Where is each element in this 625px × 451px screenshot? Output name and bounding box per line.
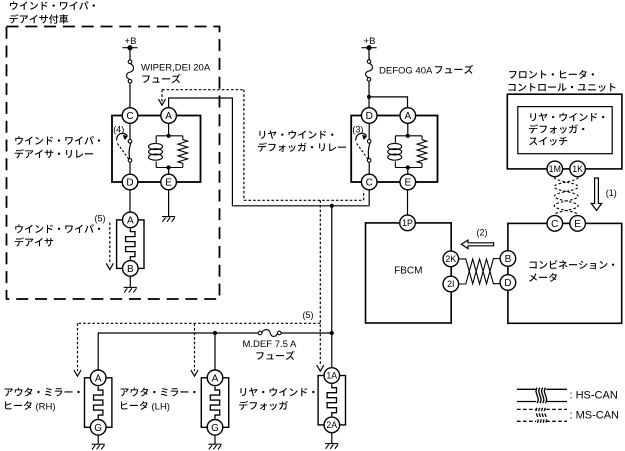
wiper deicer relay label	[15, 136, 100, 145]
svg-text:1M: 1M	[549, 164, 561, 174]
terminal B (meter)	[500, 251, 516, 267]
wire defog relay C down	[368, 190, 370, 206]
heating element (resistive)	[327, 384, 336, 416]
svg-text:(RH): (RH)	[36, 401, 56, 412]
component case	[201, 378, 228, 428]
terminal C	[122, 108, 138, 124]
terminal B	[123, 261, 139, 277]
node: coil top junction	[406, 134, 410, 138]
dashed wire (5): branch down to heaters	[319, 200, 321, 366]
legend: MS-CAN symbol	[517, 408, 567, 423]
component case	[117, 220, 144, 269]
wire fuse to node	[368, 81, 370, 97]
wire relay D to deicer A	[129, 190, 131, 212]
terminal A	[207, 370, 223, 386]
relay: window wiper deicer relay (terminals C,A,D,E)	[112, 108, 201, 190]
node: coil top junction	[167, 134, 171, 138]
node: heater feed / defogger junction	[330, 331, 334, 335]
node: LH heater branch	[213, 331, 217, 335]
ground (rear window defogger)	[325, 444, 338, 449]
ground (LH mirror heater)	[208, 444, 221, 449]
rear window defogger switch box	[518, 107, 612, 154]
svg-text:E: E	[404, 178, 411, 189]
svg-text:A: A	[404, 111, 411, 122]
front heater control unit box	[507, 94, 622, 169]
relay switch contact	[117, 123, 132, 174]
svg-text:DEFOG 40A: DEFOG 40A	[379, 65, 433, 76]
svg-text:FBCM: FBCM	[394, 265, 422, 276]
terminal 2K	[443, 251, 459, 267]
svg-text:1A: 1A	[326, 371, 337, 381]
node: coil bottom junction	[406, 165, 410, 169]
label WIPER,DEI 20A fuse	[141, 63, 211, 84]
terminal A	[161, 108, 177, 124]
wire terminal to coil	[407, 123, 409, 136]
heater element: outer mirror heater LH (terminals A,G)	[201, 370, 228, 435]
outer mirror heater RH label	[5, 388, 80, 397]
relay case	[112, 116, 201, 183]
heater element: rear window defogger (terminals 1A,2A)	[318, 368, 345, 433]
relay case	[351, 116, 437, 183]
switch actuation arrow (3)	[352, 125, 367, 141]
svg-text:G: G	[211, 423, 219, 434]
heating element (resistive)	[210, 387, 219, 419]
terminal C (meter)	[547, 216, 563, 232]
svg-text:B: B	[505, 254, 512, 265]
svg-text:2A: 2A	[326, 420, 337, 430]
svg-text:(5): (5)	[303, 310, 314, 320]
terminal 1P	[400, 215, 416, 231]
wiper deicer component label	[15, 224, 100, 233]
svg-text:: MS-CAN: : MS-CAN	[570, 410, 620, 422]
terminal 1M	[547, 161, 563, 177]
svg-text:D: D	[504, 278, 511, 289]
terminal 2A	[324, 417, 340, 433]
svg-text:A: A	[212, 373, 219, 384]
wire to LH heater A	[214, 333, 216, 370]
svg-text:M.DEF 7.5 A: M.DEF 7.5 A	[243, 339, 298, 350]
terminal D	[122, 174, 138, 190]
component case	[85, 378, 112, 428]
terminal D (meter)	[500, 275, 516, 291]
ground (RH mirror heater)	[92, 444, 105, 449]
svg-text:(2): (2)	[477, 228, 488, 238]
terminal C	[361, 174, 377, 190]
node: feed junction	[330, 204, 334, 208]
heating element (resistive)	[126, 229, 135, 260]
svg-text:1P: 1P	[402, 218, 413, 228]
wire node to relay D	[368, 97, 370, 108]
svg-text:1K: 1K	[572, 164, 583, 174]
terminal A	[90, 370, 106, 386]
wire terminal to coil	[168, 123, 170, 136]
terminal E (meter)	[570, 216, 586, 232]
svg-text:2K: 2K	[445, 254, 456, 264]
rear window defogger relay label	[259, 130, 333, 139]
svg-text:: HS-CAN: : HS-CAN	[570, 389, 618, 401]
label M.DEF 7.5 A fuse	[243, 339, 298, 360]
terminal E	[400, 174, 416, 190]
svg-text:C: C	[366, 178, 373, 189]
wire defog relay E to FBCM 1P	[407, 190, 409, 215]
heating element (resistive)	[93, 387, 102, 419]
heater element: window wiper deicer (terminals A,B)	[117, 212, 144, 276]
terminal 2I	[443, 276, 459, 292]
node: defog fuse output	[367, 95, 371, 99]
FBCM module box	[366, 223, 452, 323]
wire coil to terminal	[407, 168, 409, 175]
terminal G	[207, 420, 223, 436]
note: cars with window wiper deicer (header)	[10, 1, 95, 10]
svg-text:E: E	[165, 178, 172, 189]
svg-text:A: A	[127, 215, 134, 226]
wire +B to fuse	[129, 48, 131, 60]
dashed wire (5) arrow at wiper deicer	[109, 223, 111, 265]
svg-text:G: G	[94, 423, 102, 434]
svg-text:2I: 2I	[447, 279, 454, 289]
power +B (defog)	[361, 36, 376, 50]
svg-text:(LH): (LH)	[152, 401, 170, 412]
wire junction down to heater feed node	[331, 206, 333, 333]
HS-CAN twisted pair 2K/2I to B/D	[459, 259, 501, 285]
terminal A	[123, 212, 139, 228]
relay resistor	[178, 140, 188, 164]
wire heater feed line	[98, 333, 332, 370]
fuse M.DEF 7.5A	[258, 330, 281, 337]
hollow arrow (2)	[461, 240, 493, 249]
terminal G	[90, 420, 106, 436]
ground (wiper relay E)	[162, 217, 175, 222]
relay switch contact	[356, 123, 371, 174]
wire defogger 2A to ground	[331, 433, 333, 444]
svg-text:(5): (5)	[95, 214, 106, 224]
terminal A	[400, 108, 416, 124]
terminal 1A	[324, 368, 340, 384]
heater element: outer mirror heater RH (terminals A,G)	[85, 370, 112, 435]
relay: rear window defogger relay (terminals D,A,C,E)	[351, 108, 437, 190]
svg-text:A: A	[165, 111, 172, 122]
svg-text:D: D	[366, 111, 373, 122]
relay resistor	[417, 140, 427, 164]
legend: HS-CAN symbol	[517, 388, 567, 403]
switch actuation arrow (4)	[113, 125, 128, 141]
hollow arrow (1)	[591, 178, 601, 211]
svg-text:B: B	[127, 264, 134, 275]
rear window defogger label	[240, 388, 314, 397]
label DEFOG 40A fuse	[379, 65, 473, 77]
svg-text:WIPER,DEI 20A: WIPER,DEI 20A	[141, 63, 211, 74]
MS-CAN twisted pair 1M/1K to C/E	[554, 177, 578, 215]
svg-text:(3): (3)	[352, 125, 363, 135]
wire LH G to ground	[214, 435, 216, 444]
wire coil to terminal	[168, 168, 170, 175]
wire +B to fuse	[368, 48, 370, 60]
wire junction down to defogger 1A	[331, 333, 333, 368]
relay coil	[149, 143, 163, 160]
node: coil bottom junction	[167, 165, 171, 169]
component case	[318, 376, 345, 425]
terminal E	[161, 174, 177, 190]
svg-text:E: E	[574, 219, 581, 230]
fuse DEFOG 40A	[366, 60, 373, 81]
terminal 1K	[570, 161, 586, 177]
dashed enclosure: wiper-deicer-equipped cars option box	[7, 27, 220, 300]
wire node to relay A	[369, 97, 408, 108]
combination meter box	[508, 223, 622, 323]
svg-text:A: A	[95, 373, 102, 384]
svg-text:D: D	[126, 178, 133, 189]
svg-text:(4): (4)	[113, 125, 124, 135]
dashed wire (4): alternative routing from WIPER fuse to defog relay C	[161, 90, 163, 102]
wire RH G to ground	[97, 435, 99, 444]
svg-text:C: C	[551, 219, 558, 230]
svg-text:C: C	[126, 111, 133, 122]
outer mirror heater LH label	[121, 388, 196, 397]
fuse WIPER,DEI 20A	[127, 60, 134, 83]
wire deicer B to ground	[129, 276, 131, 287]
front heater control unit label	[509, 70, 594, 79]
ground (wiper deicer)	[124, 287, 137, 292]
wire fuse to relay terminal C	[129, 83, 131, 108]
wire wiper relay A over to defog relay C (solid feed)	[169, 98, 370, 206]
terminal D	[361, 108, 377, 124]
svg-text:(1): (1)	[606, 188, 617, 198]
wire relay E to ground	[168, 190, 170, 216]
relay coil	[388, 143, 402, 160]
power +B (wiper)	[122, 36, 137, 50]
